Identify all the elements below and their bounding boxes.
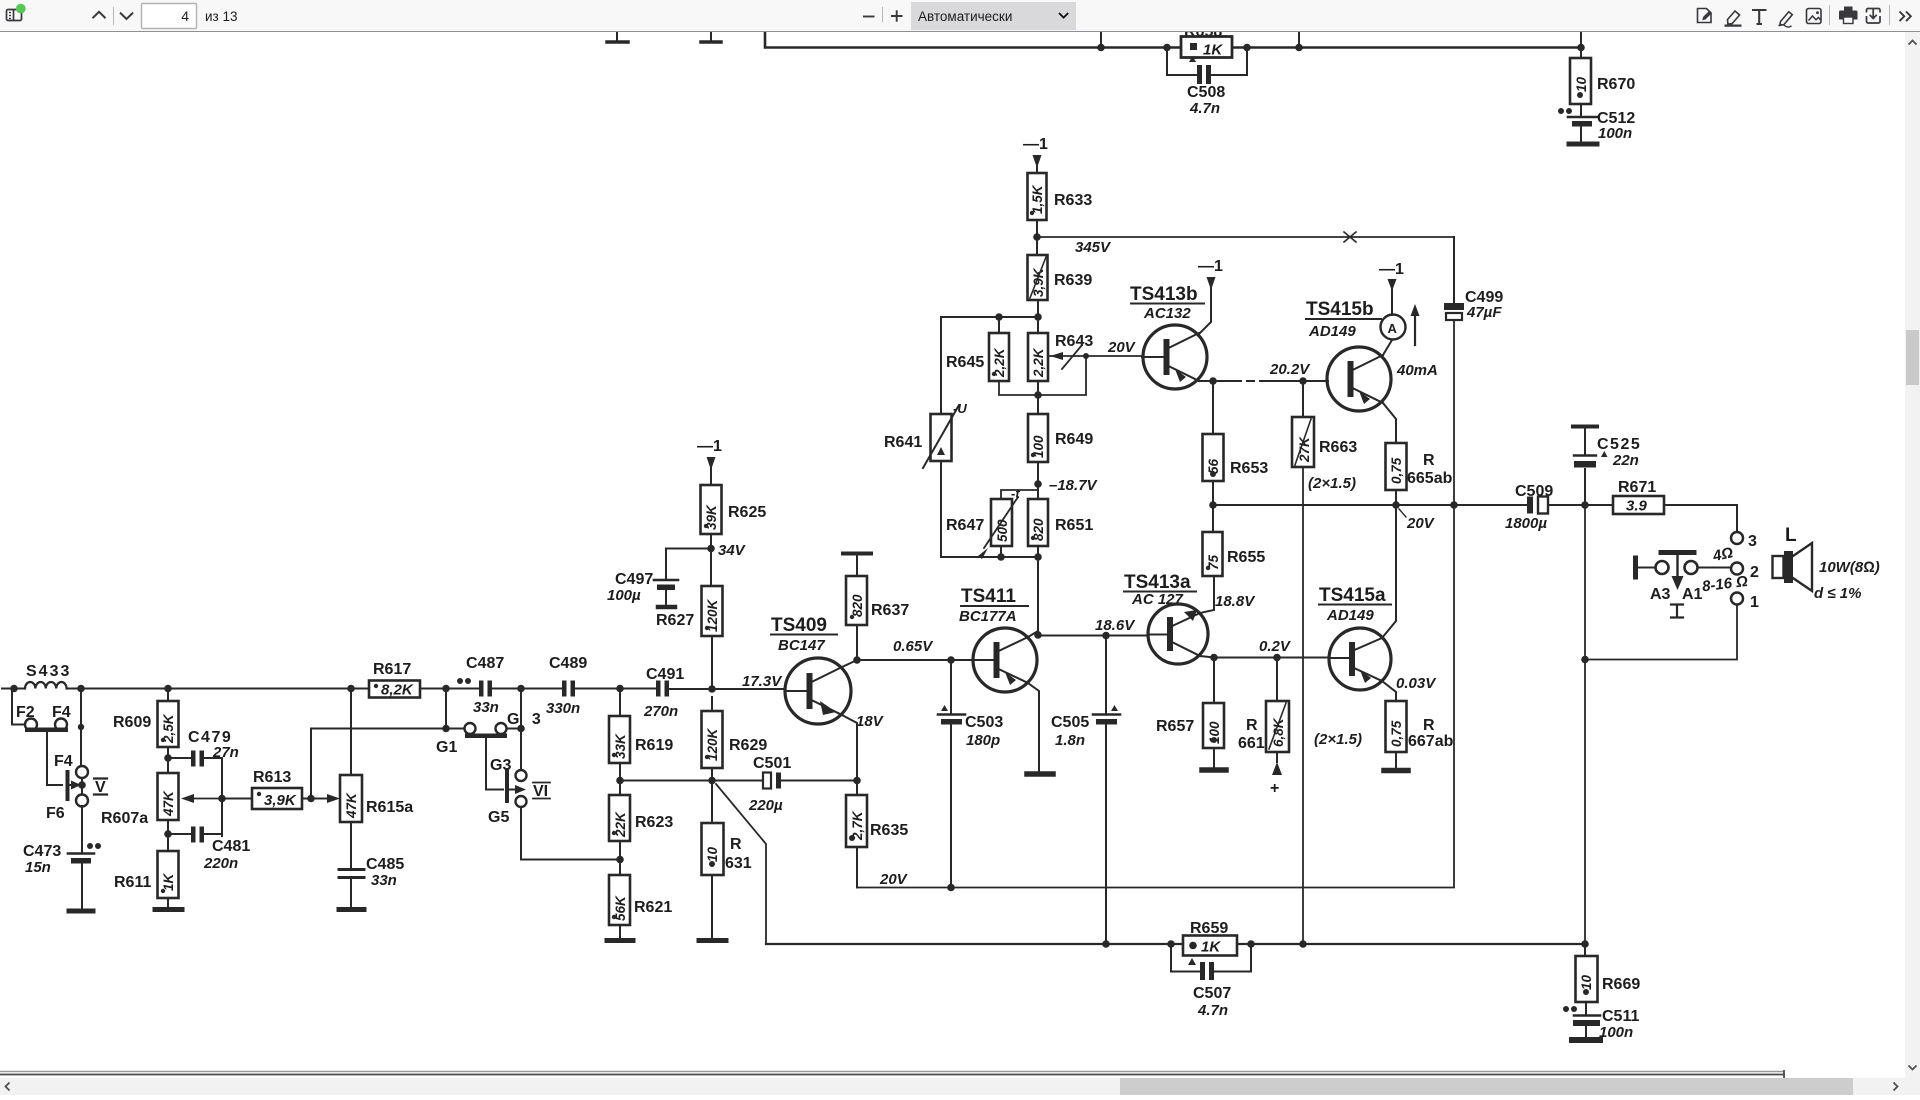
svg-text:47K: 47K [344, 792, 359, 819]
node [1295, 44, 1303, 52]
ground [701, 32, 721, 42]
wire R663 down to bottom rail [1302, 467, 1304, 944]
svg-text:1.8n: 1.8n [1055, 732, 1085, 749]
svg-text:A1: A1 [1682, 586, 1703, 603]
svg-text:C503: C503 [965, 714, 1003, 731]
svg-text:C491: C491 [646, 666, 684, 683]
capacitor C489 330n [546, 655, 587, 717]
svg-text:VI: VI [533, 783, 548, 800]
wire 345V feed to C499 rail [1037, 236, 1454, 238]
svg-text:4.7n: 4.7n [1197, 1002, 1228, 1019]
svg-text:4Ω: 4Ω [1710, 544, 1734, 565]
node [1209, 501, 1217, 509]
node [1034, 631, 1042, 639]
svg-text:20V: 20V [1406, 515, 1436, 532]
svg-text:AC132: AC132 [1143, 305, 1191, 322]
node [947, 656, 955, 664]
resistor R651 820 [1028, 499, 1093, 546]
wire R639 to bias row [1037, 300, 1039, 333]
node [1581, 656, 1589, 664]
svg-text:R655: R655 [1227, 549, 1265, 566]
svg-text:BC147: BC147 [778, 637, 825, 654]
svg-text:665ab: 665ab [1407, 470, 1453, 487]
svg-text:-U: -U [953, 401, 967, 416]
svg-text:R639: R639 [1054, 272, 1092, 289]
svg-text:R669: R669 [1602, 976, 1640, 993]
svg-text:–18.7V: –18.7V [1049, 477, 1099, 494]
node [517, 725, 525, 733]
node [164, 830, 172, 838]
resistor R619 33K [609, 689, 673, 796]
svg-text:10: 10 [1574, 76, 1589, 92]
wire bottom rail [766, 943, 1585, 945]
node -1 supply arrow R625 [697, 438, 722, 485]
svg-text:R615a: R615a [366, 799, 413, 816]
ground [607, 32, 628, 42]
resistor R613 3.9K [222, 769, 311, 809]
capacitor C481 220n [168, 827, 250, 873]
svg-text:C505: C505 [1051, 714, 1089, 731]
svg-text:4.7n: 4.7n [1189, 100, 1220, 117]
node [1163, 44, 1171, 52]
capacitor C485 33n [339, 856, 404, 910]
svg-text:S433: S433 [26, 663, 71, 680]
svg-text:TS413a: TS413a [1124, 572, 1191, 593]
svg-text:0,75: 0,75 [1389, 457, 1404, 484]
svg-text:345V: 345V [1075, 239, 1112, 256]
node [77, 685, 85, 693]
svg-text:2,2K: 2,2K [1031, 347, 1046, 378]
wire bottoms of R647 R651 [941, 546, 1038, 557]
wire 20V rail [857, 887, 1454, 889]
node [1097, 44, 1105, 52]
terminal 3 [1731, 532, 1757, 550]
wire C479/C481 right branch [221, 758, 223, 836]
node [1247, 940, 1255, 948]
svg-text:0.65V: 0.65V [893, 638, 934, 655]
svg-text:—1: —1 [697, 438, 722, 455]
meter A 40mA [1381, 304, 1438, 379]
svg-text:330n: 330n [546, 700, 580, 717]
node [1299, 377, 1307, 385]
wire TS409 collector to TS411 base [842, 660, 973, 667]
svg-text:1K: 1K [1203, 42, 1223, 59]
capacitor C507 4.7n [1171, 944, 1251, 1019]
wire main signal [168, 688, 785, 691]
resistor R645 2.2K [946, 317, 1009, 381]
svg-text:F6: F6 [46, 805, 65, 822]
terminal 2 [1731, 563, 1759, 582]
resistor R607a 47K (pot) [101, 773, 222, 851]
svg-text:R: R [1423, 717, 1435, 734]
resistor R627 120K [656, 586, 723, 689]
svg-text:1K: 1K [1201, 939, 1221, 956]
node [442, 685, 450, 693]
svg-text:1,5K: 1,5K [1030, 184, 1045, 214]
svg-text:AD149: AD149 [1308, 323, 1356, 340]
svg-text:18V: 18V [856, 713, 885, 730]
node [853, 656, 861, 664]
svg-text:R663: R663 [1319, 439, 1357, 456]
wire bias row [941, 316, 1038, 318]
svg-text:1K: 1K [161, 872, 176, 891]
wire TS413a emitter row [1200, 656, 1329, 658]
svg-text:R651: R651 [1055, 517, 1093, 534]
resistor R631 10 [699, 823, 752, 941]
resistor R667ab 0.75 [1384, 701, 1454, 771]
wire branch from G1 row [310, 729, 312, 799]
resistor R629 120K [702, 697, 768, 823]
wire R613 to R615a wiper [311, 798, 322, 800]
svg-text:F4: F4 [54, 753, 73, 770]
switch A1/A3 selector [1636, 553, 1732, 618]
capacitor C509 1800u [1505, 483, 1553, 532]
svg-text:—1: —1 [1198, 258, 1223, 275]
node [218, 795, 226, 803]
page bottom border [0, 1071, 1784, 1078]
node [10, 685, 18, 693]
svg-text:G1: G1 [436, 739, 457, 756]
svg-text:R645: R645 [946, 354, 984, 371]
node [997, 553, 1005, 561]
svg-text:270n: 270n [643, 703, 678, 720]
svg-text:R: R [730, 836, 742, 853]
svg-text:20.2V: 20.2V [1269, 361, 1311, 378]
wire output rail [1453, 320, 1455, 887]
svg-text:C511: C511 [1602, 1008, 1639, 1025]
svg-text:R637: R637 [871, 602, 909, 619]
resistor R665ab 0.75 [1383, 403, 1453, 505]
svg-text:—1: —1 [1379, 261, 1404, 278]
resistor R655 75 [1200, 505, 1265, 613]
svg-text:TS409: TS409 [771, 615, 827, 636]
svg-text:R670: R670 [1597, 76, 1635, 93]
node [1581, 501, 1589, 509]
svg-text:R649: R649 [1055, 431, 1093, 448]
svg-text:из 13: из 13 [205, 9, 238, 24]
svg-text:(2×1.5): (2×1.5) [1308, 475, 1356, 492]
svg-text:AD149: AD149 [1326, 607, 1374, 624]
transistor TS415b AD149 [1306, 299, 1391, 411]
wire R649 to emitter row [1037, 462, 1039, 499]
capacitor C508 4.7n [1167, 48, 1247, 118]
svg-text:R607a: R607a [101, 810, 148, 827]
node 20V tap [1399, 509, 1436, 532]
svg-text:R619: R619 [635, 737, 673, 754]
node -1 supply arrow for R633 [1023, 136, 1048, 173]
svg-text:0,75: 0,75 [1389, 720, 1404, 747]
svg-text:R635: R635 [870, 822, 908, 839]
svg-text:R617: R617 [373, 661, 411, 678]
node [1167, 940, 1175, 948]
resistor R635 2.7K [846, 781, 908, 888]
svg-text:0.03V: 0.03V [1396, 675, 1437, 692]
inductor S433 [2, 663, 168, 689]
wire terminal1 to C525 node down to R669 [1585, 505, 1737, 944]
wire G1 row [311, 689, 464, 729]
wire top supply rail [765, 32, 1580, 48]
svg-text:C508: C508 [1187, 84, 1225, 101]
svg-text:40mA: 40mA [1396, 362, 1438, 379]
svg-text:20V: 20V [879, 871, 909, 888]
capacitor C512 100n [1558, 104, 1635, 144]
svg-text:22n: 22n [1612, 452, 1639, 469]
transistor TS409 BC147 [742, 615, 885, 730]
svg-text:-t: -t [1011, 486, 1020, 501]
svg-text:R629: R629 [729, 737, 767, 754]
wire R645 bottom loop [999, 381, 1038, 395]
capacitor C487 33n [457, 655, 504, 716]
svg-text:R: R [1423, 452, 1435, 469]
transistor TS415a AD149 [1319, 585, 1391, 690]
svg-text:G5: G5 [488, 809, 509, 826]
node [947, 884, 955, 892]
resistor R611 1K [114, 851, 182, 910]
node [1033, 233, 1041, 241]
resistor R670 10 [1570, 48, 1635, 105]
node [1577, 44, 1585, 52]
resistor R649 100 [1028, 381, 1093, 462]
capacitor C511 100n [1563, 1002, 1639, 1041]
node -1 supply arrow TS415b [1379, 261, 1404, 315]
node [707, 545, 715, 553]
svg-text:8-16 Ω: 8-16 Ω [1701, 573, 1749, 596]
svg-text:R641: R641 [884, 434, 922, 451]
svg-text:C525: C525 [1597, 436, 1641, 453]
resistor R658 (label cut off) [1181, 24, 1232, 59]
svg-text:TS415b: TS415b [1306, 299, 1374, 320]
wire diagonal feedback to bottom rail [716, 784, 766, 944]
capacitor C479 27n [168, 729, 239, 767]
node [616, 777, 624, 785]
svg-text:C507: C507 [1193, 985, 1231, 1002]
wire wiper down to R643 bottom [1038, 356, 1086, 395]
svg-text:C481: C481 [212, 838, 250, 855]
svg-text:C485: C485 [366, 856, 404, 873]
node [1273, 654, 1281, 662]
node [1210, 654, 1218, 662]
wire stub up [1100, 32, 1102, 48]
transistor TS413b AC132 [1130, 284, 1207, 389]
node [995, 313, 1003, 321]
contact G1 [436, 711, 545, 756]
svg-text:R671: R671 [1618, 479, 1656, 496]
resistor R623 22K [609, 795, 673, 875]
svg-text:500: 500 [995, 519, 1010, 542]
svg-text:C487: C487 [466, 655, 504, 672]
capacitor C501 220u [748, 755, 791, 814]
contact G5 [488, 796, 620, 860]
resistor R669 10 [1576, 944, 1641, 1002]
svg-text:L: L [1785, 525, 1797, 546]
svg-text:G 3: G 3 [507, 711, 545, 728]
wire chain down to TS411 collector [1037, 557, 1039, 635]
svg-text:4: 4 [181, 8, 189, 24]
node [616, 856, 624, 864]
svg-text:8,2K: 8,2K [381, 682, 414, 699]
contact F2 F4 [12, 689, 84, 766]
svg-text:20V: 20V [1107, 339, 1137, 356]
node [1102, 632, 1110, 640]
svg-text:661: 661 [1238, 735, 1265, 752]
node [1034, 553, 1042, 561]
svg-text:C497: C497 [615, 571, 653, 588]
svg-text:10: 10 [1579, 974, 1594, 990]
node [1243, 44, 1251, 52]
node [164, 754, 172, 762]
node [1034, 391, 1042, 399]
svg-text:1: 1 [1750, 594, 1759, 611]
svg-text:100n: 100n [1598, 125, 1632, 142]
svg-text:100n: 100n [1599, 1024, 1633, 1041]
contact F4 / switch V [47, 733, 107, 799]
resistor R609 2.5K [113, 689, 179, 774]
svg-text:631: 631 [725, 855, 752, 872]
wire TS409 emitter down [842, 715, 857, 781]
svg-text:47µF: 47µF [1466, 304, 1502, 321]
capacitor C497 100u [607, 549, 711, 608]
svg-text:33n: 33n [473, 699, 499, 716]
svg-text:18.8V: 18.8V [1215, 593, 1256, 610]
PDF viewer toolbar [0, 0, 1920, 32]
wire TS411 base row to TS413a [1038, 635, 1148, 637]
svg-text:TS411: TS411 [961, 586, 1016, 607]
svg-text:C501: C501 [753, 755, 791, 772]
node [1299, 940, 1307, 948]
svg-text:+: + [1270, 780, 1279, 797]
node [517, 685, 525, 693]
svg-text:A3: A3 [1650, 586, 1671, 603]
node [1083, 353, 1089, 359]
svg-text:R625: R625 [728, 504, 766, 521]
svg-text:1800µ: 1800µ [1505, 515, 1547, 532]
node [1581, 940, 1589, 948]
svg-text:18.6V: 18.6V [1095, 617, 1136, 634]
svg-text:R613: R613 [253, 769, 291, 786]
node [307, 795, 315, 803]
svg-text:d ≤ 1%: d ≤ 1% [1814, 585, 1861, 602]
resistor R671 3.9 [1613, 479, 1664, 515]
svg-text:R: R [1246, 717, 1258, 734]
svg-text:667ab: 667ab [1408, 733, 1454, 750]
node [1450, 501, 1458, 509]
svg-text:47K: 47K [161, 790, 176, 817]
svg-text:R657: R657 [1156, 718, 1194, 735]
wire stub up [1298, 32, 1300, 48]
svg-text:100µ: 100µ [607, 587, 641, 604]
capacitor C473 15n [23, 843, 101, 911]
svg-text:33n: 33n [371, 872, 397, 889]
node [1209, 377, 1217, 385]
node [1034, 313, 1042, 321]
transistor TS413a AC127 [1124, 572, 1208, 664]
node [164, 685, 172, 693]
svg-text:220µ: 220µ [748, 797, 783, 814]
svg-text:3,9K: 3,9K [264, 792, 297, 809]
node [1034, 480, 1042, 488]
resistor R663 27K [1292, 381, 1357, 492]
resistor R621 56K [607, 875, 672, 941]
resistor R657 100 [1156, 658, 1226, 771]
node [616, 685, 624, 693]
node [1102, 940, 1110, 948]
resistor R647 500 (trimmer) [946, 486, 1038, 559]
svg-text:Автоматически: Автоматически [918, 9, 1012, 24]
wire feedback row [620, 780, 857, 782]
resistor R643 2.2K (trimmer) [1028, 333, 1093, 381]
svg-text:R609: R609 [113, 714, 151, 731]
terminal 1 [1731, 593, 1759, 612]
speaker L [1773, 525, 1813, 591]
resistor R639 3.9K [1028, 255, 1093, 300]
resistor R659 1K [1183, 920, 1237, 956]
transistor TS411 BC177A [959, 586, 1037, 692]
wire output rail to TS415a collector [1382, 505, 1396, 638]
resistor R653 56 [1203, 381, 1269, 505]
capacitor C505 1.8n [1051, 636, 1120, 945]
svg-text:220n: 220n [203, 855, 238, 872]
node [442, 725, 450, 733]
svg-text:15n: 15n [25, 859, 51, 876]
svg-text:3: 3 [1748, 533, 1757, 550]
svg-text:820: 820 [850, 594, 865, 617]
svg-text:R627: R627 [656, 612, 694, 629]
svg-text:R647: R647 [946, 517, 984, 534]
resistor R637 820 [843, 554, 909, 661]
wire C487 out down [520, 689, 522, 729]
capacitor C499 47uF [1444, 237, 1503, 321]
wire TS415a emitter down [1382, 681, 1396, 701]
svg-text:R621: R621 [634, 899, 672, 916]
svg-text:R611: R611 [114, 874, 151, 891]
svg-text:R623: R623 [635, 814, 673, 831]
resistor R641 (VDR) [884, 317, 967, 557]
wire TS411 emitter to ground [1027, 683, 1053, 774]
svg-text:0.2V: 0.2V [1259, 638, 1292, 655]
capacitor C525 22n [1573, 427, 1641, 506]
horizontal scrollbar [0, 1078, 1920, 1095]
resistor R633 1.5K [1028, 173, 1093, 220]
node [708, 777, 716, 785]
svg-text:—1: —1 [1023, 136, 1048, 153]
svg-text:2: 2 [1750, 564, 1759, 581]
wire TS413b emitter to TS415b base (with dashed gap) [1199, 380, 1328, 382]
svg-text:R653: R653 [1230, 460, 1268, 477]
svg-text:10: 10 [705, 846, 720, 862]
resistor R625 39K [701, 485, 767, 586]
node crossing mark [1344, 232, 1356, 242]
capacitor C503 180p [938, 660, 1003, 888]
svg-text:TS413b: TS413b [1130, 284, 1198, 305]
node [708, 685, 716, 693]
resistor R615a 47K (pot) [322, 689, 413, 869]
svg-text:C473: C473 [23, 843, 61, 860]
svg-text:C489: C489 [549, 655, 587, 672]
node [347, 685, 355, 693]
svg-text:BC177A: BC177A [959, 608, 1017, 625]
svg-text:A: A [1388, 321, 1398, 336]
node [853, 777, 861, 785]
svg-text:R643: R643 [1055, 333, 1093, 350]
svg-text:34V: 34V [718, 542, 747, 559]
svg-text:TS415a: TS415a [1319, 585, 1386, 606]
wire R633 to R639 [1036, 220, 1038, 255]
resistor R617 8.2K [369, 661, 420, 699]
node [1392, 501, 1400, 509]
svg-text:17.3V: 17.3V [742, 673, 783, 690]
svg-text:10W(8Ω): 10W(8Ω) [1819, 559, 1880, 576]
capacitor C491 270n [643, 666, 684, 720]
